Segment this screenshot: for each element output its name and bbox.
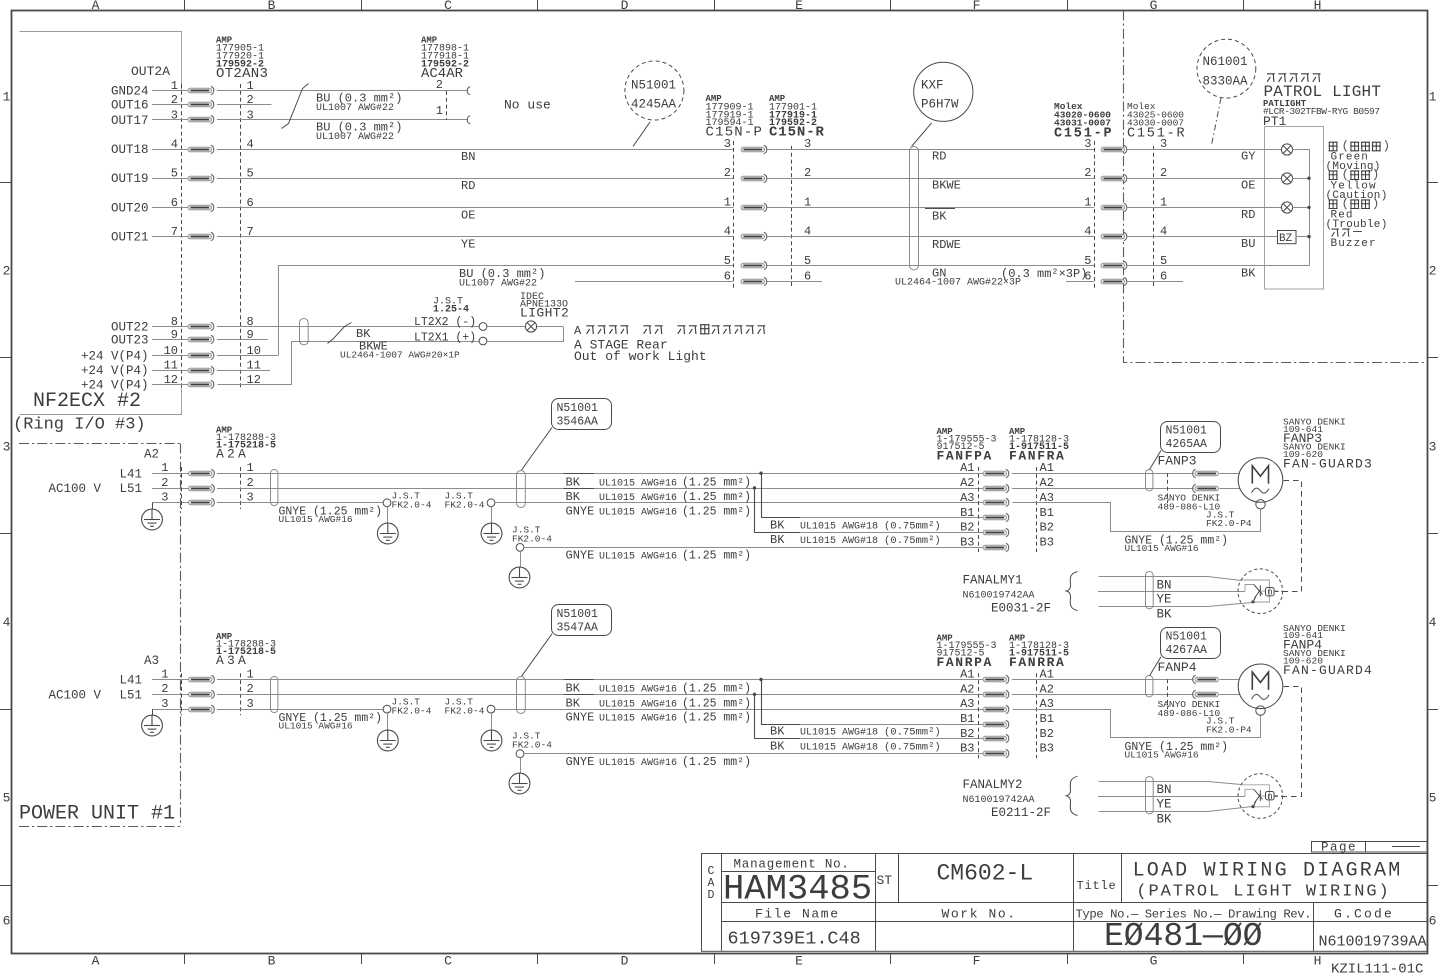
boundary chain line between NF2ECX and POWER UNIT (19, 443, 181, 445)
svg-text:EØ481—ØØ: EØ481—ØØ (1104, 918, 1262, 955)
svg-text:FANFRA: FANFRA (1009, 449, 1065, 464)
wire (152, 178, 188, 180)
svg-text:BK: BK (770, 740, 785, 754)
wire (152, 326, 188, 328)
connector C151 contacts (1101, 145, 1127, 153)
svg-text:N51001: N51001 (631, 79, 676, 93)
svg-text:BKWE: BKWE (932, 179, 961, 193)
leader line (522, 634, 553, 677)
wire OUT16 stub (217, 104, 272, 106)
svg-text:B1: B1 (960, 506, 974, 520)
wire (217, 236, 734, 238)
wire (767, 178, 1094, 180)
wire GNYE to ring terminal (217, 502, 383, 504)
svg-text:3: 3 (1084, 137, 1091, 151)
wire +24V pin10 corner (217, 355, 278, 357)
svg-text:(PATROL LIGHT WIRING): (PATROL LIGHT WIRING) (1136, 883, 1390, 902)
svg-text:N51001: N51001 (1166, 424, 1208, 437)
svg-text:2: 2 (724, 166, 731, 180)
svg-text:D: D (621, 954, 629, 969)
svg-text:A3A: A3A (216, 653, 249, 668)
svg-text:B3: B3 (1040, 535, 1054, 549)
wire OE to yellow lamp (1127, 178, 1281, 180)
svg-text:UL2464-1007 AWG#20×1P: UL2464-1007 AWG#20×1P (340, 350, 460, 361)
ring terminal (487, 705, 495, 713)
wire color label BK (A2) (564, 694, 594, 696)
wire PE from ground (152, 502, 189, 504)
svg-text:F: F (973, 0, 981, 13)
alarm sensor FANALMY2 (photo sensor) (1238, 774, 1283, 819)
svg-text:(1.25 mm²): (1.25 mm²) (682, 697, 751, 710)
svg-text:FANP4: FANP4 (1158, 660, 1197, 675)
svg-text:3: 3 (3, 440, 11, 455)
svg-text:4: 4 (724, 225, 731, 239)
svg-text:4245AA: 4245AA (631, 98, 677, 112)
svg-text:OUT21: OUT21 (111, 231, 149, 245)
cable bundle sheath (1146, 676, 1153, 697)
svg-text:AC100 V: AC100 V (49, 482, 102, 496)
wire +24V to C15N-P pin 5 (BU) (279, 266, 734, 356)
svg-text:GNYE: GNYE (566, 549, 595, 563)
svg-text:H: H (1314, 0, 1322, 13)
svg-text:OUT17: OUT17 (111, 114, 149, 128)
svg-text:BZ: BZ (1279, 233, 1293, 245)
wire GN stub after C151-R (1127, 281, 1183, 283)
POWER UNIT #1 boundary chain line right edge (180, 444, 182, 827)
junction (759, 678, 762, 681)
svg-text:3: 3 (161, 697, 168, 711)
svg-text:8330AA: 8330AA (1203, 75, 1249, 89)
junction (1307, 206, 1310, 209)
wire to motor (1220, 473, 1240, 475)
wire phase A1 (217, 473, 983, 475)
svg-text:4: 4 (1084, 225, 1091, 239)
svg-text:A2: A2 (960, 682, 974, 696)
svg-text:RD: RD (461, 179, 475, 193)
wire A2 to fan plug (1012, 694, 1194, 696)
svg-text:1: 1 (3, 90, 11, 105)
wire (767, 265, 1094, 267)
connector OT2A housing dashed line (181, 84, 183, 390)
svg-text:FANRRA: FANRRA (1009, 655, 1065, 670)
svg-text:OUT22: OUT22 (111, 321, 149, 335)
svg-text:File Name: File Name (755, 906, 840, 921)
svg-text:GNYE: GNYE (566, 504, 595, 518)
svg-text:BK: BK (1157, 608, 1173, 622)
ground (387, 713, 389, 730)
svg-text:F: F (973, 954, 981, 969)
svg-text:BK: BK (932, 209, 947, 223)
legend red (Japanese) (1329, 200, 1338, 209)
machine boundary chain line (patrol light section) (1124, 11, 1427, 363)
svg-text:FK2.0-4: FK2.0-4 (392, 499, 432, 510)
svg-text:6: 6 (724, 269, 731, 283)
wire branch to B1 (762, 680, 801, 725)
svg-text:FK2.0-P4: FK2.0-P4 (1206, 724, 1252, 735)
leader line (522, 428, 553, 471)
wire +24V pin11 stub (217, 370, 270, 372)
svg-text:UL1015 AWG#16: UL1015 AWG#16 (1125, 543, 1199, 554)
connector FANRRA housing dashed line (1036, 673, 1038, 758)
svg-text:5: 5 (724, 254, 731, 268)
svg-text:(0.75mm²): (0.75mm²) (884, 742, 941, 754)
svg-text:L51: L51 (119, 482, 142, 496)
PT1 enclosure box (1265, 127, 1324, 290)
svg-text:UL1015 AWG#16: UL1015 AWG#16 (599, 507, 677, 518)
svg-text:UL1007 AWG#22: UL1007 AWG#22 (316, 132, 394, 143)
balloon N61001 8330AA (1197, 39, 1256, 98)
wire RD to red lamp (1127, 207, 1281, 209)
wire GNYE B3 (524, 753, 983, 755)
svg-text:E: E (795, 0, 803, 13)
svg-text:FK2.0-P4: FK2.0-P4 (1206, 518, 1252, 529)
wire (152, 384, 188, 386)
wire A1 to fan plug (1012, 473, 1194, 475)
svg-text:6: 6 (1429, 914, 1437, 929)
connector FANFRA housing dashed line (1036, 467, 1038, 552)
wire to motor (1220, 679, 1240, 681)
svg-text:FAN-GUARD3: FAN-GUARD3 (1283, 457, 1373, 472)
wire GN row 6 (575, 281, 734, 283)
wire phase A2 (217, 694, 983, 696)
lamp green (moving) (1281, 144, 1292, 155)
svg-text:B: B (268, 954, 276, 969)
svg-text:CM602-L: CM602-L (937, 861, 1034, 887)
buzzer BZ (1278, 231, 1297, 244)
cable slash mark (328, 323, 352, 344)
ground (491, 713, 493, 730)
svg-text:4: 4 (1429, 615, 1437, 630)
svg-text:GNYE: GNYE (566, 755, 595, 769)
svg-text:D: D (621, 0, 629, 13)
svg-text:Out of work Light: Out of work Light (574, 349, 707, 364)
svg-text:FANALMY2: FANALMY2 (963, 778, 1023, 792)
svg-text:B3: B3 (1040, 742, 1054, 756)
svg-text:C15N-P: C15N-P (706, 125, 764, 141)
svg-text:YE: YE (1157, 797, 1172, 811)
svg-text:N610019742AA: N610019742AA (963, 590, 1035, 601)
svg-text:A2A: A2A (216, 447, 249, 462)
svg-text:D: D (708, 889, 715, 902)
svg-text:B1: B1 (1040, 506, 1054, 520)
svg-text:1.25-4: 1.25-4 (433, 305, 469, 316)
svg-text:6: 6 (1084, 269, 1091, 283)
wire branch to B2 (755, 695, 801, 739)
svg-text:RDWE: RDWE (932, 238, 961, 252)
cable tag N51001 4267AA (1161, 628, 1221, 659)
connector C15N contacts (741, 145, 767, 153)
wire branch to B1 (762, 474, 801, 518)
lamp LIGHT2 (525, 321, 536, 332)
svg-text:FK2.0-4: FK2.0-4 (445, 706, 485, 717)
svg-text:N610019742AA: N610019742AA (963, 795, 1035, 806)
svg-text:(1.25 mm²): (1.25 mm²) (682, 505, 751, 518)
ground (491, 507, 493, 524)
svg-text:N610019739AA: N610019739AA (1319, 934, 1427, 951)
svg-text:3: 3 (171, 108, 178, 122)
wire OUT17 to AC4AR pin 1 (217, 119, 468, 121)
svg-text:Title: Title (1077, 879, 1117, 893)
cable bundle sheath (517, 471, 526, 508)
connector FANP4 housing dashed line (1167, 679, 1169, 709)
svg-text:NF2ECX #2: NF2ECX #2 (33, 390, 141, 413)
svg-text:+24 V(P4): +24 V(P4) (81, 349, 149, 363)
wire (217, 207, 734, 209)
dashed link FANP4 to FANALMY2 sensor (1276, 687, 1302, 797)
junction (753, 486, 756, 489)
svg-text:B2: B2 (960, 521, 974, 535)
connector OT2AN3 contacts (188, 86, 214, 94)
svg-text:B2: B2 (1040, 727, 1054, 741)
wire L41 (152, 473, 189, 475)
cable bundle sheath (1146, 470, 1153, 491)
motor PE terminal (1256, 706, 1265, 715)
svg-text:6: 6 (3, 914, 11, 929)
svg-text:A1: A1 (960, 461, 974, 475)
connector C151-P housing dashed line (1094, 141, 1096, 288)
balloon N51001 4245AA (625, 61, 684, 120)
svg-text:2: 2 (247, 476, 254, 490)
wire color label BK (925, 208, 955, 210)
svg-text:B2: B2 (960, 727, 974, 741)
NF2ECX unit outline (20, 32, 182, 91)
svg-text:UL2464-1007 AWG#22×3P: UL2464-1007 AWG#22×3P (895, 278, 1021, 289)
svg-text:(1.25 mm²): (1.25 mm²) (682, 683, 751, 696)
svg-text:FK2.0-4: FK2.0-4 (445, 499, 485, 510)
connector A2A contacts (189, 469, 215, 477)
svg-text:(1.25 mm²): (1.25 mm²) (682, 491, 751, 504)
leader line (1150, 451, 1162, 470)
ring terminal (383, 499, 391, 507)
cable bundle sheath (300, 319, 309, 345)
ground (387, 507, 389, 524)
wire (152, 104, 188, 106)
leader line (633, 122, 650, 147)
wire (217, 178, 734, 180)
motor FANP3 (fan) (1238, 458, 1283, 503)
junction (753, 693, 756, 696)
svg-text:GND24: GND24 (111, 85, 149, 99)
svg-text:BK: BK (566, 490, 581, 504)
svg-text:FANP3: FANP3 (1158, 454, 1197, 469)
cable bundle sheath (patrol light cable) (910, 147, 919, 271)
wire PE from ground (152, 709, 189, 711)
svg-text:G.Code: G.Code (1334, 906, 1394, 921)
POWER UNIT #1 boundary chain line bottom (19, 826, 181, 828)
svg-text:N51001: N51001 (1166, 631, 1208, 644)
svg-text:UL1007 AWG#22: UL1007 AWG#22 (316, 103, 394, 114)
svg-text:619739E1.C48: 619739E1.C48 (728, 929, 861, 950)
svg-text:E0031-2F: E0031-2F (991, 601, 1051, 615)
svg-text:BN: BN (1157, 783, 1172, 797)
wire (152, 90, 188, 92)
cable bundle sheath (271, 470, 278, 506)
svg-text:2: 2 (247, 93, 254, 107)
lamp LIGHT2 loop wiring (487, 326, 525, 328)
svg-text:BK: BK (1241, 266, 1256, 280)
svg-text:A2: A2 (1040, 476, 1054, 490)
svg-text:(0.75mm²): (0.75mm²) (884, 535, 941, 547)
svg-text:n: n (1267, 587, 1272, 597)
svg-text:YE: YE (461, 238, 475, 252)
legend buzzer (Japanese) (1331, 229, 1338, 237)
cable tag N51001 3547AA (552, 605, 612, 636)
ground (152, 503, 154, 509)
svg-text:C: C (444, 0, 452, 13)
wire A1 to fan plug (1012, 679, 1194, 681)
svg-text:1: 1 (724, 195, 731, 209)
motor PE terminal (1256, 500, 1265, 509)
svg-text:3: 3 (804, 137, 811, 151)
frame column ticks (184, 0, 186, 11)
svg-text:RD: RD (932, 150, 946, 164)
lamp yellow (caution) (1281, 173, 1292, 184)
wire (152, 149, 188, 151)
connector AC4AR housing dashed line (446, 91, 448, 120)
wire (152, 236, 188, 238)
svg-text:Page: Page (1321, 840, 1357, 854)
note A stage rear out of work light (Japanese) (586, 326, 594, 334)
title block grid (721, 853, 723, 951)
svg-text:LIGHT2: LIGHT2 (520, 306, 569, 321)
wire GNYE to fan connector A3 (495, 502, 983, 504)
ground (520, 551, 522, 566)
junction (1307, 235, 1310, 238)
connector FANRPA housing dashed line (978, 673, 980, 758)
svg-text:A3: A3 (144, 654, 159, 668)
svg-text:A3: A3 (960, 491, 974, 505)
svg-text:1: 1 (1084, 195, 1091, 209)
wire (152, 370, 188, 372)
PT1 common bus wire (1293, 149, 1309, 151)
svg-text:B3: B3 (960, 535, 974, 549)
svg-text:+24 V(P4): +24 V(P4) (81, 364, 149, 378)
wire L51 (152, 488, 189, 490)
svg-text:A2: A2 (960, 476, 974, 490)
svg-text:BN: BN (1157, 578, 1172, 592)
svg-text:UL1015 AWG#16: UL1015 AWG#16 (599, 493, 677, 504)
brace (1066, 776, 1077, 815)
svg-text:UL1015 AWG#16: UL1015 AWG#16 (599, 714, 677, 725)
wire (767, 236, 1094, 238)
cable bundle sheath (1146, 777, 1154, 814)
svg-text:B2: B2 (1040, 521, 1054, 535)
connector FANFPA housing dashed line (978, 467, 980, 552)
alarm sensor FANALMY1 (photo sensor) (1238, 569, 1283, 614)
leader line (1150, 657, 1162, 676)
svg-text:L41: L41 (119, 467, 142, 481)
wire BK common return (1127, 265, 1309, 267)
svg-text:GY: GY (1241, 150, 1255, 164)
svg-text:A: A (574, 324, 582, 338)
svg-text:4267AA: 4267AA (1166, 644, 1208, 657)
svg-text:Work No.: Work No. (942, 906, 1017, 921)
ring terminal (516, 544, 524, 552)
leader line (912, 123, 932, 147)
wire GND24 to AC4AR pin 2 (217, 90, 468, 92)
svg-text:B: B (268, 0, 276, 13)
svg-text:4265AA: 4265AA (1166, 438, 1208, 451)
wire BN (1099, 577, 1242, 581)
svg-text:No use: No use (504, 98, 551, 113)
svg-text:5: 5 (1084, 254, 1091, 268)
ground (152, 709, 154, 715)
svg-text:3: 3 (1429, 440, 1437, 455)
page number box (1312, 842, 1428, 853)
svg-text:KXF: KXF (921, 79, 944, 93)
svg-text:A1: A1 (960, 668, 974, 682)
wire GN segment (1066, 281, 1094, 283)
svg-text:(Ring I/O #3): (Ring I/O #3) (13, 416, 146, 435)
svg-text:A2: A2 (144, 448, 159, 462)
svg-text:BK: BK (770, 725, 785, 739)
svg-text:OE: OE (461, 208, 475, 222)
wire color label BK (A1) (564, 679, 594, 681)
svg-text:(0.75mm²): (0.75mm²) (884, 727, 941, 739)
wire L51 (152, 694, 189, 696)
svg-text:GNYE: GNYE (566, 711, 595, 725)
svg-text:B3: B3 (960, 742, 974, 756)
svg-text:1: 1 (161, 461, 168, 475)
svg-text:A3: A3 (960, 697, 974, 711)
svg-text:OT2AN3: OT2AN3 (216, 66, 268, 82)
wire branch to B2 (755, 489, 801, 533)
svg-text:3: 3 (724, 137, 731, 151)
svg-text:N51001: N51001 (557, 608, 599, 621)
svg-text:A: A (92, 954, 100, 969)
connector FANFPA contacts (983, 469, 1009, 477)
svg-text:3546AA: 3546AA (557, 415, 599, 428)
svg-text:AC100 V: AC100 V (49, 689, 102, 703)
svg-text:RD: RD (1241, 208, 1255, 222)
balloon KXF P6H7W (914, 62, 973, 121)
wire GN segment (767, 281, 822, 283)
connector FANP3 contacts (1193, 469, 1219, 477)
svg-text:UL1007 AWG#22: UL1007 AWG#22 (459, 279, 537, 290)
brace (1066, 572, 1077, 611)
svg-text:1: 1 (247, 461, 254, 475)
svg-text:LT2X2 (-): LT2X2 (-) (414, 316, 476, 329)
svg-text:4: 4 (3, 615, 11, 630)
svg-text:E: E (795, 954, 803, 969)
svg-text:FAN-GUARD4: FAN-GUARD4 (1283, 663, 1373, 678)
svg-text:KZIL111-01C: KZIL111-01C (1331, 962, 1423, 974)
cable bundle sheath (1146, 572, 1154, 609)
cable bundle sheath (271, 677, 278, 713)
wire GNYE B3 (524, 547, 983, 549)
svg-text:1: 1 (1429, 90, 1437, 105)
connector FANP3 housing dashed line (1167, 473, 1169, 503)
wire YE (1098, 591, 1245, 593)
wire BK (1099, 603, 1253, 607)
connector A3A housing dashed lines (181, 673, 183, 715)
svg-text:B1: B1 (960, 712, 974, 726)
svg-text:H: H (1314, 954, 1322, 969)
svg-text:2: 2 (436, 78, 443, 92)
svg-text:(1.25 mm²): (1.25 mm²) (682, 550, 751, 563)
svg-text:UL1015 AWG#18: UL1015 AWG#18 (800, 728, 878, 739)
svg-text:5: 5 (3, 791, 11, 806)
svg-text:G: G (1150, 954, 1158, 969)
svg-text:BK: BK (770, 518, 785, 532)
junction (1307, 177, 1310, 180)
connector C15N-P housing dashed line (733, 141, 735, 288)
connector C15N-R housing dashed line (791, 146, 793, 288)
svg-text:2: 2 (161, 476, 168, 490)
svg-text:UL1015 AWG#16: UL1015 AWG#16 (1125, 749, 1199, 760)
wire OUT22 to LT2X2 (217, 326, 479, 328)
svg-text:C: C (444, 954, 452, 969)
